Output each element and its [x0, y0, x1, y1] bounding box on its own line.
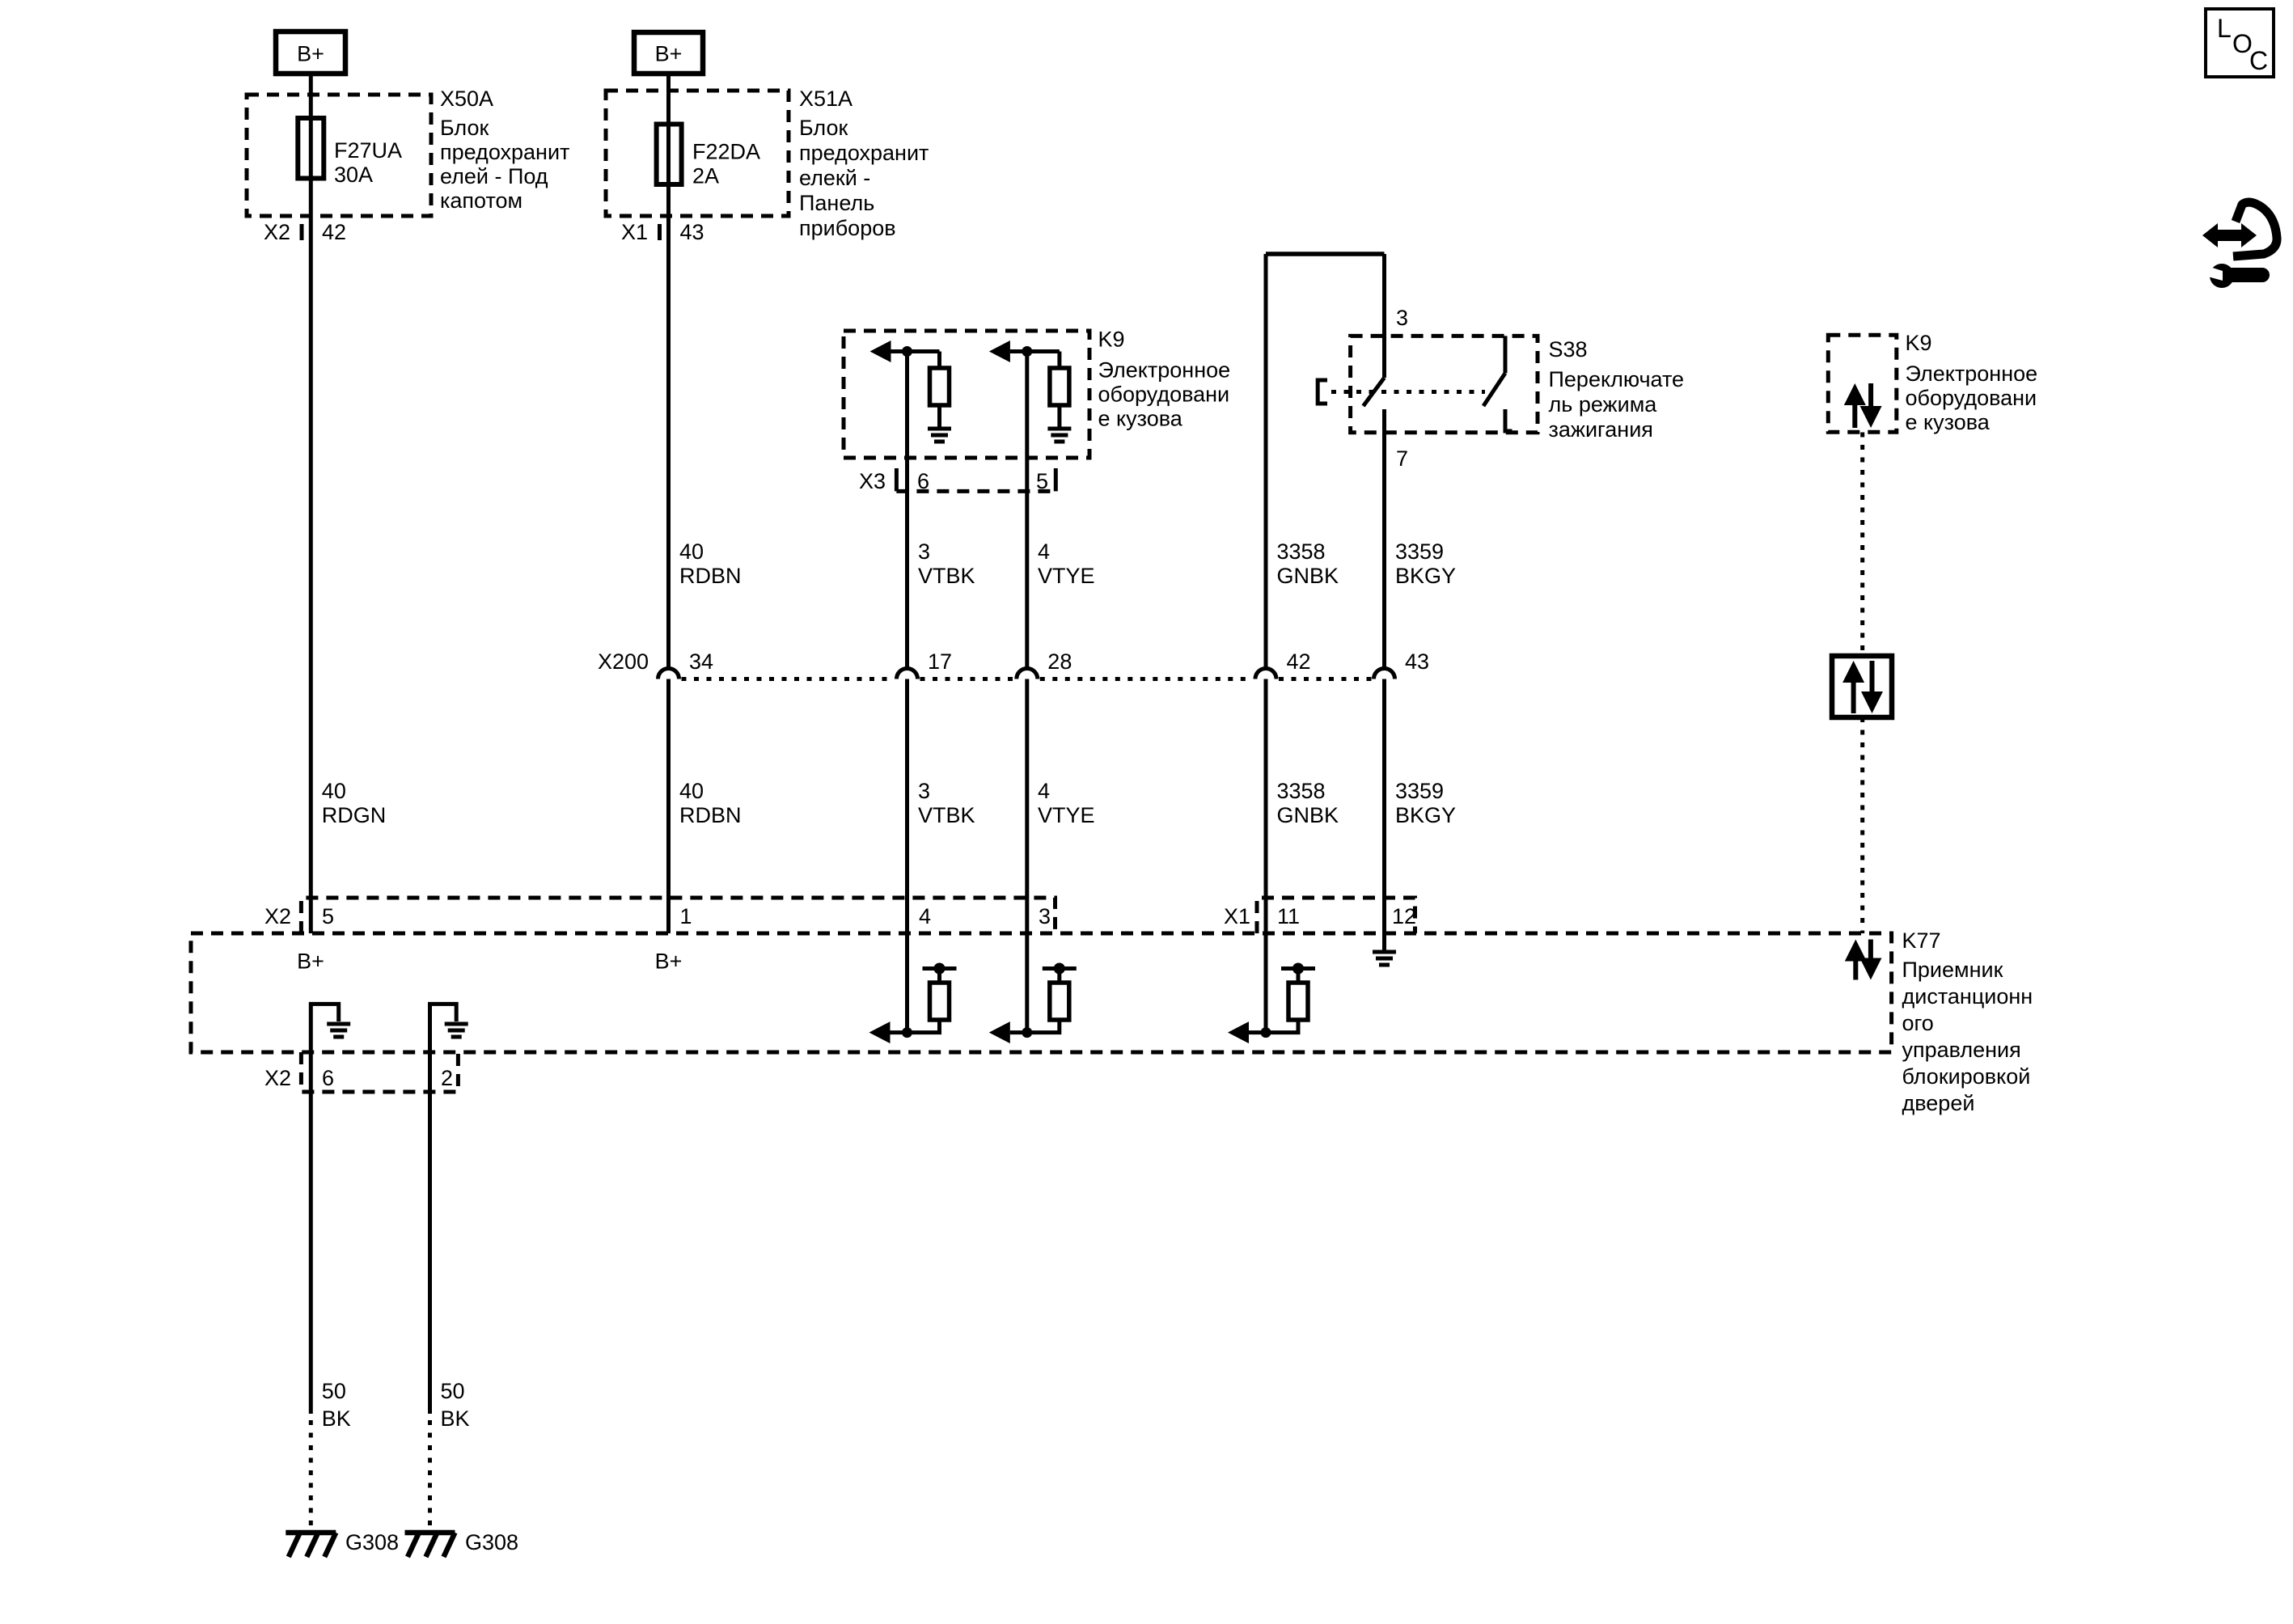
junction node (K77 pin 4) [902, 1027, 912, 1038]
svg-text:K77: K77 [1902, 928, 1941, 953]
svg-text:VTYE: VTYE [1038, 803, 1095, 827]
connector X200 pin 43 half-circle [1374, 669, 1395, 679]
ground (K77 internal 1) [327, 1024, 350, 1037]
svg-text:6: 6 [917, 469, 929, 493]
svg-text:X1: X1 [621, 220, 648, 244]
input arrow terminal (K77 pin 4) [869, 1021, 891, 1043]
wire 3 VTBK upper (K9 X3-6 to X200-17) [905, 352, 909, 669]
svg-text:елей - Под: елей - Под [440, 164, 548, 188]
wire to resistor 2 [1057, 352, 1061, 369]
svg-text:B+: B+ [297, 42, 324, 66]
switch blade 1 [1364, 378, 1385, 406]
svg-text:11: 11 [1277, 904, 1300, 928]
ground (K9 internal 1) [928, 429, 951, 442]
fuse block X51A (dashed) [606, 91, 789, 216]
svg-text:приборов: приборов [799, 216, 896, 240]
svg-text:капотом: капотом [440, 188, 522, 213]
chassis ground G308 at x=384.3 [286, 1533, 336, 1557]
wire 3359 BKGY (S38 pin 7 to X200-43) [1382, 409, 1386, 669]
svg-text:VTBK: VTBK [918, 564, 975, 588]
svg-text:3: 3 [918, 779, 930, 803]
svg-text:VTBK: VTBK [918, 803, 975, 827]
K77 internal wire corner to ground 1 [311, 1004, 338, 1052]
svg-text:дистанционн: дистанционн [1902, 984, 2033, 1009]
switch S38 (ignition mode switch), dashed box [1351, 336, 1538, 432]
output arrow terminal (K9 pin 6 drive) [870, 340, 891, 362]
fuse F27UA [298, 118, 324, 179]
wire: B+ feed through fuse F22DA to X200 pin 34 [666, 74, 671, 669]
wire 4 VTYE upper (K9 X3-5 to X200-28) [1025, 352, 1029, 669]
svg-text:ого: ого [1902, 1011, 1934, 1035]
svg-text:B+: B+ [655, 42, 683, 66]
svg-text:оборудовани: оборудовани [1906, 386, 2037, 410]
svg-text:е кузова: е кузова [1098, 407, 1183, 431]
svg-text:50: 50 [441, 1379, 465, 1403]
wire 3 VTBK lower (X200-17 to K77 pin 4) [905, 679, 909, 1033]
svg-text:Электронное: Электронное [1098, 358, 1231, 383]
svg-text:управления: управления [1902, 1038, 2021, 1062]
svg-text:34: 34 [689, 649, 713, 674]
wire to resistor 1 [937, 352, 941, 369]
svg-text:40: 40 [322, 779, 346, 803]
svg-text:3: 3 [1039, 904, 1051, 928]
svg-text:4: 4 [919, 904, 931, 928]
wire 50 BK dotted part 1 [309, 1420, 313, 1529]
svg-text:Переключате: Переключате [1549, 367, 1685, 391]
svg-text:K9: K9 [1098, 328, 1125, 352]
connector pin tick X2-42 [300, 224, 304, 240]
resistor R (K77 pullup pin 4) [930, 983, 950, 1020]
connector pin row box (K77 bottom X2) [301, 1052, 458, 1092]
wire resistor 1 to ground [937, 405, 941, 427]
K77 internal wire corner to ground 2 [430, 1004, 457, 1052]
svg-text:L: L [2217, 14, 2232, 43]
svg-text:3: 3 [918, 539, 930, 564]
connector pin row box (K77 top, X2 side) [301, 898, 1055, 933]
svg-text:30A: 30A [334, 163, 373, 187]
svg-text:F22DA: F22DA [692, 140, 760, 164]
svg-text:е кузова: е кузова [1906, 410, 1991, 434]
connector X200 dotted line [682, 677, 895, 681]
svg-text:3358: 3358 [1277, 779, 1326, 803]
svg-text:1: 1 [680, 904, 692, 928]
svg-text:X2: X2 [264, 1066, 291, 1090]
svg-text:предохранит: предохранит [440, 140, 569, 164]
K77 internal wiring pin 3 [1010, 1020, 1060, 1033]
input arrow terminal (K77 pin 3) [989, 1021, 1010, 1043]
ground (K77 internal 2) [445, 1024, 468, 1037]
switch pole 2 lower stub [1505, 409, 1512, 431]
svg-text:X2: X2 [264, 220, 290, 244]
resistor R (K9 internal pullup 1) [930, 368, 950, 405]
svg-text:елекй -: елекй - [799, 166, 870, 190]
svg-text:C: C [2249, 46, 2268, 75]
svg-text:зажигания: зажигания [1549, 417, 1653, 442]
svg-text:RDBN: RDBN [679, 803, 742, 827]
svg-text:оборудовани: оборудовани [1098, 383, 1230, 407]
svg-text:G308: G308 [465, 1530, 518, 1554]
mechanical linkage bracket [1318, 380, 1327, 404]
wire resistor 2 to ground [1057, 405, 1061, 427]
module K9 (body electronic equipment), dashed box [844, 331, 1089, 458]
resistor top bar terminal pin 11 [1297, 971, 1301, 983]
svg-text:7: 7 [1396, 446, 1408, 471]
svg-text:Блок: Блок [440, 116, 489, 140]
resistor R (K77 pullup pin 3) [1050, 983, 1069, 1020]
wire 4 VTYE lower (X200-28 to K77 pin 3) [1025, 679, 1029, 1033]
svg-text:5: 5 [1036, 469, 1048, 493]
fuse F22DA [657, 125, 682, 185]
connector X3 pin bracket [895, 468, 899, 491]
svg-text:BKGY: BKGY [1395, 564, 1456, 588]
svg-text:B+: B+ [297, 949, 324, 974]
svg-text:ль режима: ль режима [1549, 392, 1658, 417]
svg-text:Приемник: Приемник [1902, 958, 2003, 982]
svg-text:12: 12 [1392, 904, 1416, 928]
svg-text:40: 40 [679, 779, 704, 803]
svg-text:3359: 3359 [1395, 539, 1444, 564]
connector X200 pin 17 half-circle [897, 669, 918, 679]
svg-text:5: 5 [322, 904, 334, 928]
module K9 (body electronic equipment, right), dashed box [1828, 335, 1897, 432]
svg-text:дверей: дверей [1902, 1091, 1975, 1115]
wire 50 BK (K77 X2-2 to G308), solid part [428, 1052, 432, 1414]
resistor R (K9 internal pullup 2) [1050, 368, 1069, 405]
connector X200 pin 34 half-circle [658, 669, 679, 679]
service icon: wrench [2210, 264, 2234, 288]
resistor top bar terminal pin 4 [937, 971, 941, 983]
junction node (K77 pin 3) [1022, 1027, 1032, 1038]
service icon: curved arrow [2233, 202, 2277, 256]
svg-text:3359: 3359 [1395, 779, 1444, 803]
svg-text:X3: X3 [859, 469, 886, 493]
svg-text:28: 28 [1047, 649, 1072, 674]
wire loop top (GNBK/BKGY feed) [1266, 252, 1385, 256]
svg-text:X51A: X51A [799, 87, 852, 111]
switch blade 2 [1483, 373, 1505, 406]
svg-text:BKGY: BKGY [1395, 803, 1456, 827]
resistor R (K77 pullup pin 11) [1288, 983, 1308, 1020]
LOC legend box [2206, 9, 2274, 77]
wire 3359 BKGY from loop into S38 pin 3 [1382, 254, 1386, 378]
wire 3359 BKGY lower (X200-43 to K77 pin 12) [1382, 679, 1386, 934]
connector X200 pin 42 half-circle [1255, 669, 1276, 679]
svg-text:42: 42 [322, 220, 346, 244]
lock/unlock arrows (symbol box) [1842, 661, 1864, 683]
connector pin tick X1-43 [658, 224, 662, 240]
svg-text:40: 40 [679, 539, 704, 564]
module K77 (remote door lock receiver), dashed box [191, 933, 1892, 1052]
input arrow terminal (K77 pin 11) [1228, 1021, 1249, 1043]
svg-text:G308: G308 [345, 1530, 399, 1554]
junction node pin5 [1022, 346, 1032, 357]
svg-text:VTYE: VTYE [1038, 564, 1095, 588]
junction node (K77 pin 11) [1261, 1027, 1271, 1038]
svg-text:4: 4 [1038, 779, 1050, 803]
dotted wire: K9 to lock symbol [1860, 433, 1864, 654]
lock/unlock symbol box [1832, 656, 1892, 717]
svg-text:блокировкой: блокировкой [1902, 1064, 2031, 1089]
junction node pin6 [902, 346, 912, 357]
svg-text:17: 17 [928, 649, 952, 674]
svg-text:X50A: X50A [440, 87, 493, 111]
svg-text:GNBK: GNBK [1277, 564, 1339, 588]
svg-text:BK: BK [322, 1406, 351, 1431]
svg-text:S38: S38 [1549, 337, 1588, 362]
resistor top bar terminal pin 3 [1057, 971, 1061, 983]
svg-text:3: 3 [1396, 306, 1408, 330]
svg-text:X1: X1 [1224, 904, 1250, 928]
wire inside K9 to pullup 1 [891, 349, 940, 353]
lock/unlock arrows (right K9) [1844, 383, 1866, 405]
switch pole 2 [1504, 336, 1508, 373]
connector X200 pin 28 half-circle [1017, 669, 1038, 679]
svg-text:Электронное: Электронное [1906, 362, 2038, 386]
lock/unlock arrows (K77) [1845, 940, 1867, 962]
chassis ground G308 at x=531.5 [405, 1533, 455, 1557]
svg-text:50: 50 [322, 1379, 346, 1403]
svg-text:RDBN: RDBN [679, 564, 742, 588]
svg-text:BK: BK [441, 1406, 470, 1431]
wire: B+ feed through fuse F27UA down to K77 pin X2-5 [309, 74, 313, 933]
svg-text:X200: X200 [598, 649, 649, 674]
wire 3358 GNBK upper (to X200-42) [1264, 254, 1268, 669]
svg-text:F27UA: F27UA [334, 138, 402, 163]
svg-text:Блок: Блок [799, 116, 848, 140]
dotted wire: lock symbol to K77 [1860, 717, 1864, 933]
wire 50 BK (K77 X2-6 to G308), solid part [309, 1052, 313, 1414]
svg-text:2A: 2A [692, 164, 719, 188]
K77 internal wiring pin 4 [891, 1020, 940, 1033]
svg-text:B+: B+ [655, 949, 683, 974]
wire K77 pin 12 to ground [1382, 933, 1386, 950]
svg-text:43: 43 [1405, 649, 1429, 674]
wire 3358 GNBK lower (X200-42 to K77 pin 11) [1264, 679, 1268, 1033]
service icon: double arrow [2202, 223, 2257, 247]
power symbol B+ (battery feed 2) [634, 32, 703, 74]
mechanical linkage dotted line [1331, 390, 1485, 394]
svg-text:X2: X2 [264, 904, 291, 928]
svg-text:42: 42 [1287, 649, 1311, 674]
wire 50 BK dotted part 2 [428, 1420, 432, 1529]
svg-text:6: 6 [322, 1066, 334, 1090]
power symbol B+ (battery feed 1) [276, 32, 345, 74]
svg-text:43: 43 [680, 220, 704, 244]
svg-text:3358: 3358 [1277, 539, 1326, 564]
output arrow terminal (K9 pin 5 drive) [989, 340, 1010, 362]
svg-text:GNBK: GNBK [1277, 803, 1339, 827]
svg-text:RDGN: RDGN [322, 803, 387, 827]
svg-text:4: 4 [1038, 539, 1050, 564]
fuse block X50A (dashed) [247, 95, 431, 216]
connector pin row box (K77 top, X1 side) [1257, 898, 1415, 933]
wire inside K9 to pullup 2 [1010, 349, 1060, 353]
svg-text:2: 2 [441, 1066, 453, 1090]
ground (K77 pin 12) [1373, 952, 1396, 965]
wire 40 RDBN lower (X200-34 to K77 pin 1) [666, 679, 671, 934]
svg-text:предохранит: предохранит [799, 141, 929, 165]
ground (K9 internal 2) [1047, 429, 1071, 442]
svg-text:Панель: Панель [799, 191, 874, 215]
K77 internal wiring pin 11 [1249, 1020, 1298, 1033]
svg-text:K9: K9 [1906, 331, 1932, 355]
